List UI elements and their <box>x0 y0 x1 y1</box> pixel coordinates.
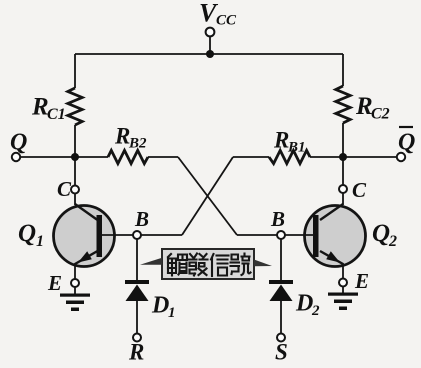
svg-text:R: R <box>114 124 130 149</box>
wire D1 to R <box>136 301 138 334</box>
wire Q output <box>20 156 75 158</box>
svg-text:Q: Q <box>398 130 415 156</box>
svg-text:C: C <box>57 177 72 201</box>
resistor RC2 <box>336 86 350 123</box>
svg-text:E: E <box>354 269 369 293</box>
wire B Q2 to diode D2 <box>280 239 282 280</box>
svg-text:B: B <box>134 207 149 231</box>
wire to base Q2 <box>237 234 277 236</box>
wire D2 to S <box>280 301 282 334</box>
svg-text:Q: Q <box>10 130 27 156</box>
node Q collector junction <box>71 153 79 161</box>
label Q2 <box>372 220 397 250</box>
svg-text:Q: Q <box>372 220 390 247</box>
wire RB2 left lead <box>75 156 108 158</box>
svg-text:D: D <box>151 293 169 319</box>
label RC1 <box>31 94 66 124</box>
label Q1 <box>18 220 44 250</box>
svg-text:2: 2 <box>388 233 397 250</box>
diode D1 <box>125 280 149 301</box>
svg-text:B2: B2 <box>128 136 147 152</box>
char chu <box>168 254 187 276</box>
label Vcc <box>199 0 237 29</box>
resistor RB1 <box>269 150 310 163</box>
node Qbar collector junction <box>339 153 347 161</box>
label Qbar output <box>398 127 415 156</box>
char fa <box>189 254 208 276</box>
svg-text:C2: C2 <box>371 106 390 123</box>
svg-text:B: B <box>270 207 285 231</box>
svg-text:R: R <box>128 340 144 365</box>
svg-text:1: 1 <box>168 305 176 321</box>
text trigger signal characters <box>168 254 251 277</box>
terminal E Q1 <box>71 279 79 287</box>
svg-text:CC: CC <box>216 13 237 29</box>
wire top rail <box>75 53 343 55</box>
svg-text:Q: Q <box>18 220 36 247</box>
wire RB1 right lead <box>310 156 343 158</box>
transistor Q1 <box>54 193 134 279</box>
wire left rail lower <box>74 125 76 186</box>
ground left <box>60 287 90 311</box>
svg-text:C1: C1 <box>47 106 66 123</box>
svg-text:C: C <box>352 178 367 202</box>
terminal B Q2 <box>277 231 285 239</box>
callout box trigger signal <box>140 249 272 279</box>
terminal C Q1 <box>71 186 79 194</box>
wire right rail upper <box>342 54 344 86</box>
label RB2 <box>114 124 147 152</box>
label D2 <box>295 291 320 320</box>
char hao <box>231 254 251 276</box>
terminal C Q2 <box>339 185 347 193</box>
terminal Q <box>12 153 20 161</box>
wire cross diagonal left-to-right <box>178 157 237 235</box>
char xin <box>211 254 229 276</box>
wire B Q1 to diode D1 <box>136 239 138 280</box>
terminal S <box>277 334 285 342</box>
svg-text:D: D <box>295 291 313 317</box>
node Vcc junction <box>206 50 214 58</box>
svg-text:B1: B1 <box>287 140 306 156</box>
label RB1 <box>273 128 306 156</box>
wire RB1 to cross <box>233 156 269 158</box>
ground right <box>328 287 358 311</box>
transistor Q2 <box>285 193 366 279</box>
terminal R <box>133 334 141 342</box>
svg-text:R: R <box>273 128 289 153</box>
terminal E Q2 <box>339 279 347 287</box>
label RC2 <box>355 93 390 123</box>
terminal Vcc <box>206 28 215 37</box>
svg-text:E: E <box>47 271 62 295</box>
wire cross diagonal right-to-left <box>182 157 233 235</box>
terminal B Q1 <box>133 231 141 239</box>
diode D2 <box>269 280 293 301</box>
resistor RB2 <box>108 150 148 163</box>
wire Vcc stub <box>209 37 211 55</box>
wire left rail upper <box>74 54 76 88</box>
wire RB2 to cross <box>148 156 178 158</box>
wire Qbar output <box>343 156 397 158</box>
resistor RC1 <box>68 88 82 125</box>
svg-text:2: 2 <box>311 303 320 319</box>
terminal Qbar <box>397 153 405 161</box>
svg-text:S: S <box>275 340 288 365</box>
svg-text:1: 1 <box>36 233 44 250</box>
wire to base Q1 <box>141 234 182 236</box>
wire right rail lower <box>342 123 344 185</box>
label D1 <box>151 293 176 322</box>
